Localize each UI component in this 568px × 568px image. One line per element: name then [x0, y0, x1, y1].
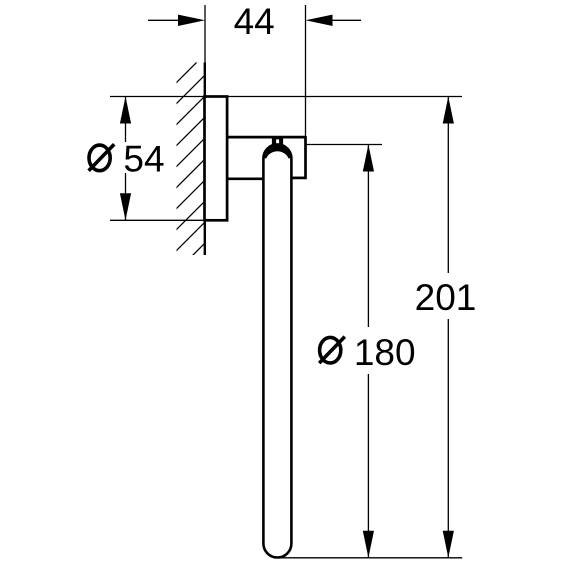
bracket arm top edge: [228, 136, 306, 139]
ring top cap inner highlight: [266, 151, 290, 172]
Ø180 dimension line segments: [367, 145, 369, 328]
diameter symbol of "Ø 180": [319, 337, 345, 364]
44 dimension line, left part: [148, 19, 180, 21]
Ø54 top arrow (points up): [120, 97, 131, 124]
44 left arrow (points right): [178, 15, 205, 26]
arrow heads: [120, 15, 454, 558]
44 right arrow (points left): [306, 15, 333, 26]
201 bottom arrow: [443, 531, 454, 558]
svg-text:54: 54: [123, 138, 164, 179]
pivot pin slot: [276, 139, 279, 143]
bracket right edge: [304, 136, 307, 179]
svg-text:201: 201: [415, 277, 477, 318]
Ø180 top arrow: [363, 145, 374, 172]
Ø54 bottom arrow (points down): [120, 193, 131, 220]
top shared extension line (201 / Ø54 top): [110, 96, 462, 98]
bracket bottom edge right segment: [291, 177, 306, 180]
svg-text:180: 180: [354, 332, 416, 373]
Ø180 bottom arrow: [363, 531, 374, 558]
towel ring (side view capsule): [263, 144, 291, 557]
pivot pin: [272, 138, 283, 147]
Ø54 bottom extension line: [110, 219, 228, 221]
wall hatching: [159, 0, 469, 289]
44 dimension line, right part: [332, 19, 361, 21]
left extension line of 44 (above wall): [204, 5, 206, 63]
201 top arrow: [443, 97, 454, 124]
right extension line of 44: [305, 5, 307, 137]
201 dimension line segments: [447, 97, 449, 274]
wall plate (rosette, side view): [205, 97, 228, 221]
thin dimension / extension lines: [110, 5, 462, 558]
wall line: [204, 63, 206, 256]
Ø54 dimension line segments: [125, 97, 127, 143]
bottom extension line (201 / Ø180): [276, 557, 462, 559]
ring top cap shading: [263, 144, 291, 158]
svg-text:44: 44: [234, 1, 275, 42]
bracket bottom edge: [228, 177, 265, 180]
diameter symbol of "Ø 54": [89, 144, 115, 171]
Ø180 top extension line: [307, 144, 383, 146]
